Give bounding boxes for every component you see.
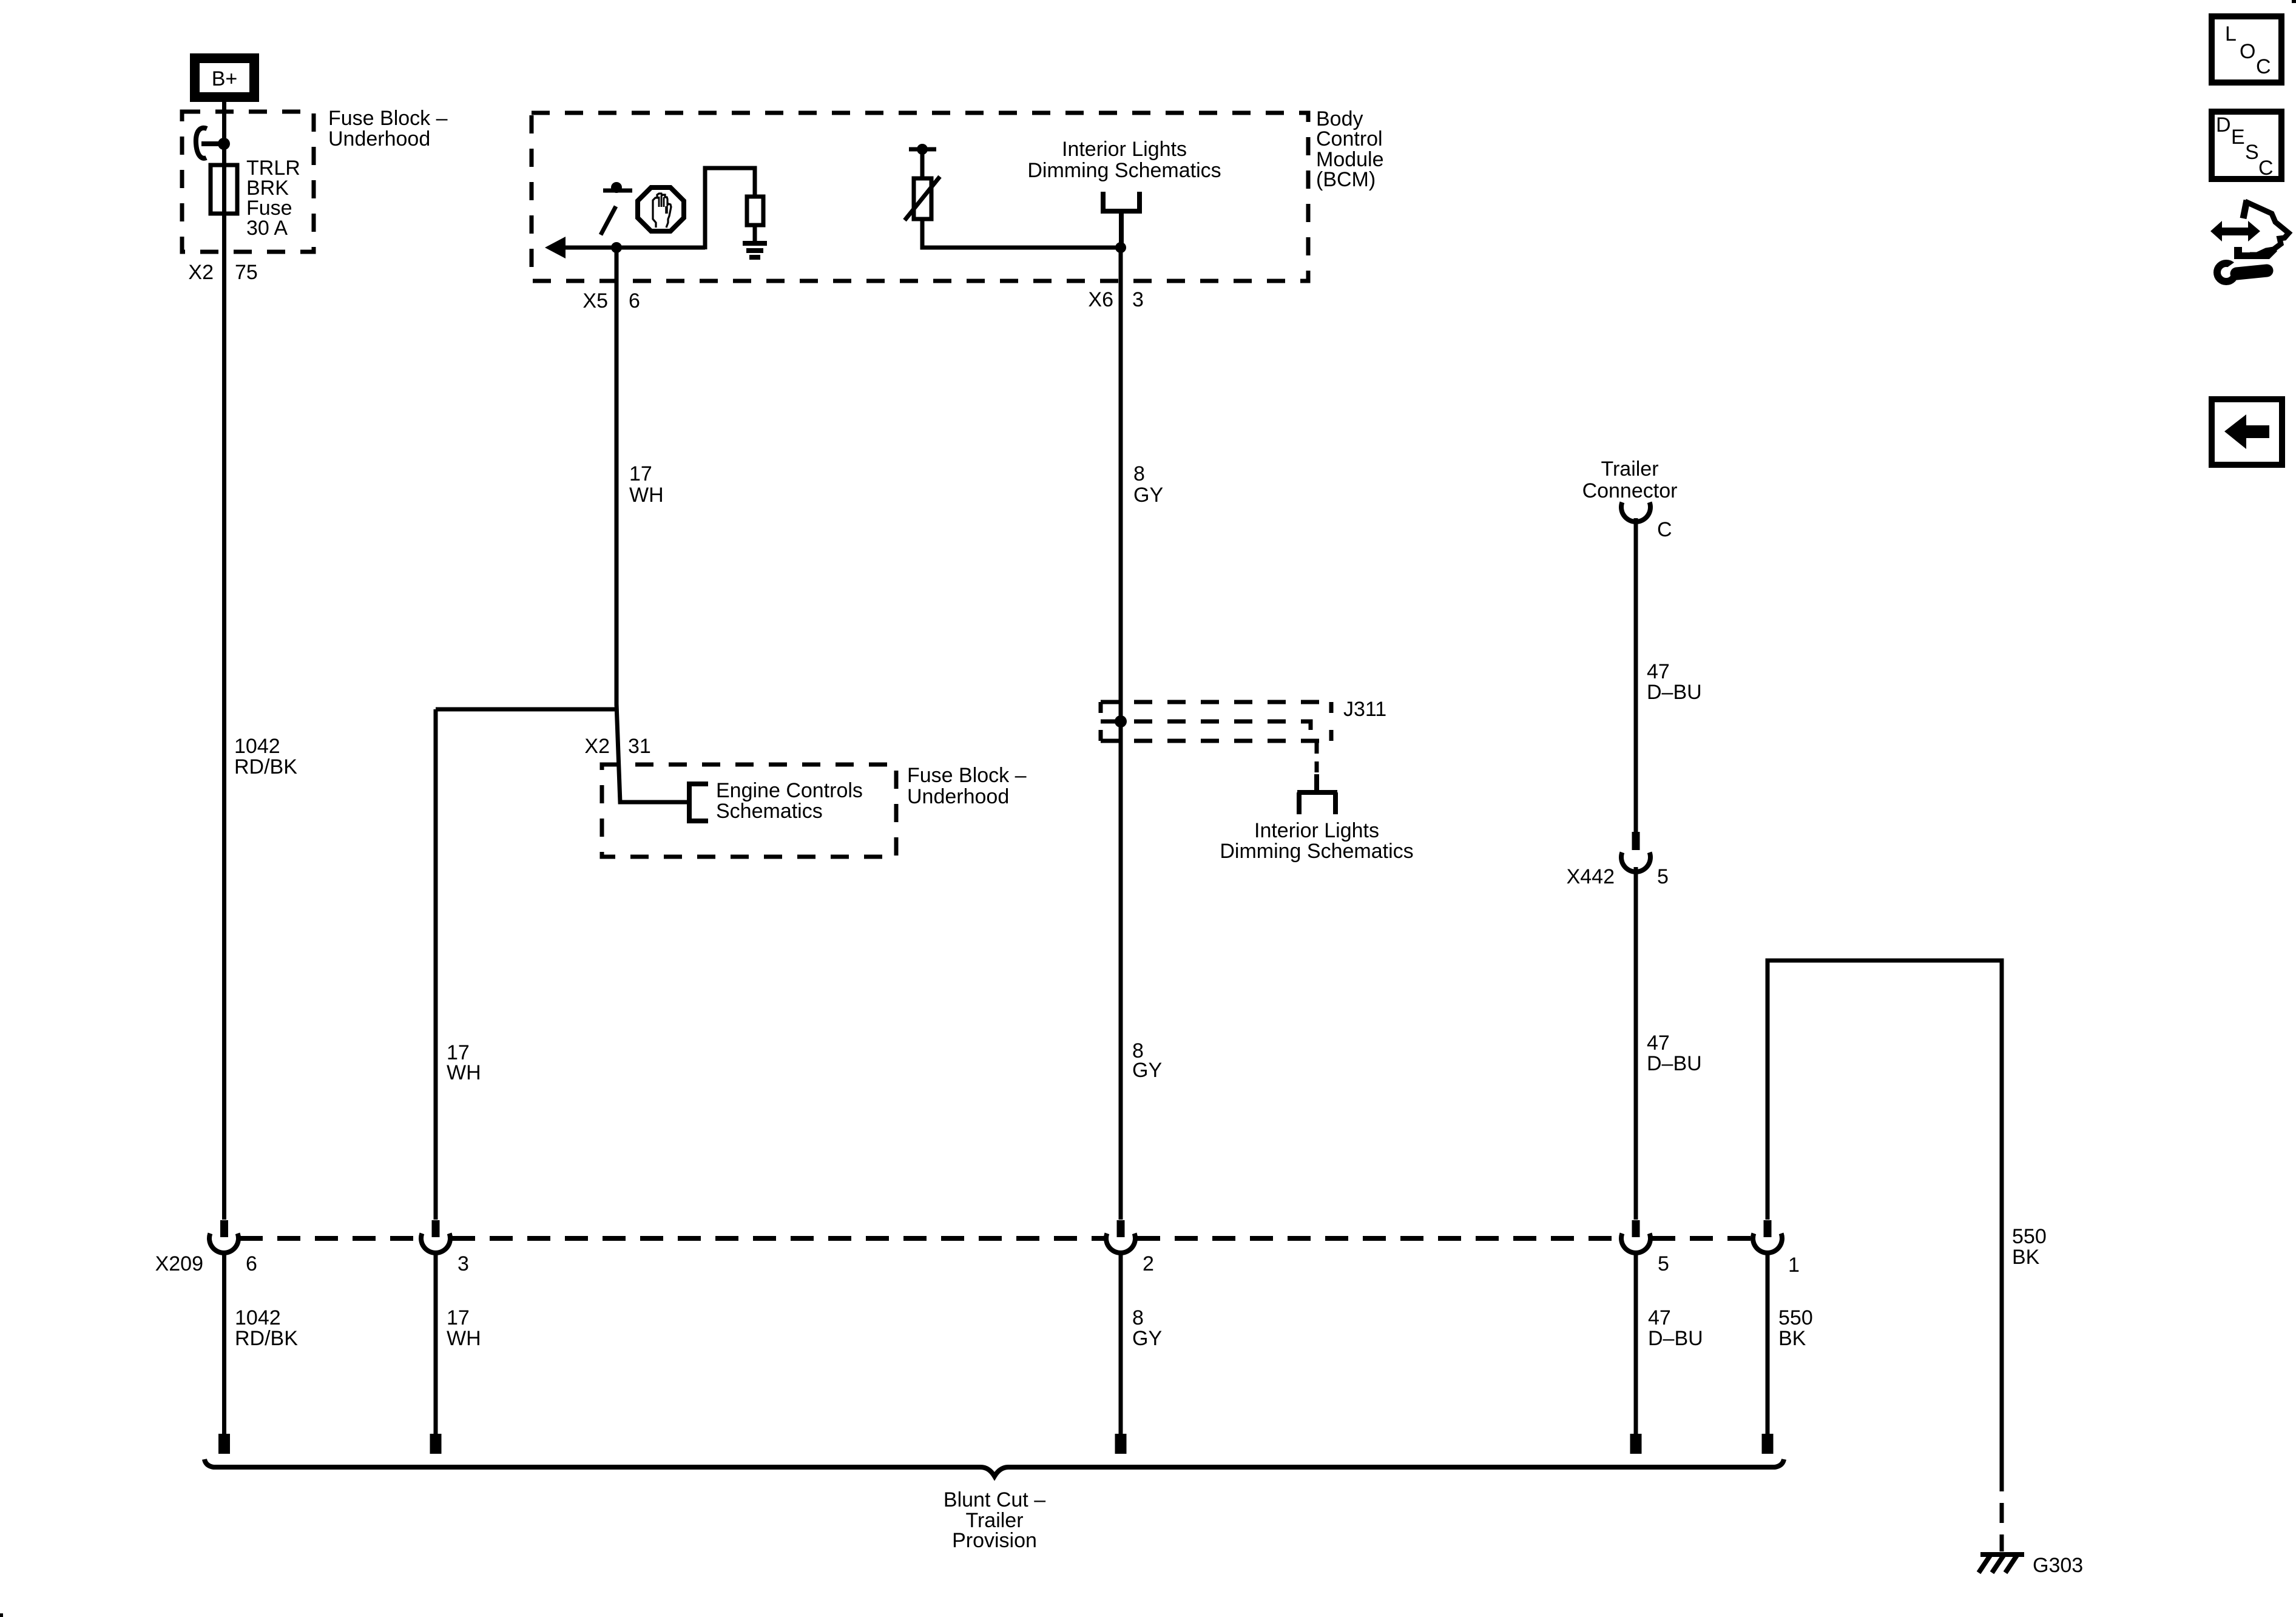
wire 47 D-BU below X209 — [1634, 1252, 1638, 1434]
hand icon — [653, 194, 671, 228]
brace — [204, 1459, 1784, 1476]
connector X209-2 — [1117, 1220, 1125, 1237]
svg-text:3: 3 — [1132, 288, 1144, 311]
wire B+ to fuse block — [222, 102, 226, 1220]
connector-view icon (arrows and wrench) — [2210, 200, 2289, 282]
trailer connector half-circle — [1621, 502, 1650, 522]
fuse TRLR BRK 30 A — [211, 165, 237, 214]
svg-text:Fuse Block –: Fuse Block – — [907, 764, 1027, 787]
wire 17 WH from BCM X5-6 down — [615, 248, 619, 706]
wire bend to left branch — [436, 707, 616, 712]
svg-text:X6: X6 — [1088, 288, 1113, 311]
wire 1042 below X209 — [222, 1252, 226, 1434]
svg-text:8: 8 — [1133, 462, 1145, 485]
svg-text:Interior Lights: Interior Lights — [1062, 138, 1187, 161]
bracket to interior lights dimming — [1297, 774, 1337, 814]
junction dot J311 — [1115, 715, 1127, 727]
svg-text:6: 6 — [629, 289, 640, 312]
interior lights dimming output bracket — [1103, 192, 1140, 244]
svg-text:RD/BK: RD/BK — [234, 755, 297, 778]
svg-text:Fuse Block –: Fuse Block – — [328, 107, 448, 130]
svg-text:WH: WH — [629, 484, 664, 507]
svg-text:Provision: Provision — [952, 1529, 1037, 1552]
left out-arrow on horizontal wire — [545, 237, 566, 258]
svg-text:17: 17 — [447, 1306, 470, 1329]
junction dot X6 output — [1115, 242, 1126, 253]
wire 8 GY below X209 — [1119, 1252, 1123, 1434]
svg-text:Underhood: Underhood — [907, 785, 1009, 808]
wire 550 BK below X209 — [1766, 1252, 1770, 1434]
X442 connector half-circle — [1621, 852, 1650, 872]
svg-text:G303: G303 — [2033, 1554, 2083, 1577]
svg-text:17: 17 — [629, 462, 652, 485]
dashed stub below J311 — [1315, 743, 1319, 774]
svg-text:75: 75 — [235, 261, 258, 284]
svg-text:RD/BK: RD/BK — [235, 1327, 298, 1350]
wire 47 D-BU lower — [1634, 867, 1638, 1220]
wire diagonal into fuse block X2-31 — [616, 704, 689, 802]
X209 dashed harness line — [240, 1236, 1751, 1241]
svg-text:550: 550 — [1778, 1306, 1813, 1329]
svg-text:3: 3 — [458, 1252, 469, 1275]
svg-text:31: 31 — [628, 735, 651, 758]
resistor stem to ground — [753, 225, 757, 241]
svg-text:47: 47 — [1648, 1306, 1671, 1329]
svg-text:Dimming Schematics: Dimming Schematics — [1027, 159, 1221, 182]
svg-text:C: C — [2256, 55, 2271, 78]
svg-text:BK: BK — [1778, 1327, 1806, 1350]
svg-text:X2: X2 — [584, 735, 610, 758]
svg-text:X209: X209 — [155, 1252, 203, 1275]
switch (brake output driver) — [601, 191, 632, 235]
svg-text:WH: WH — [447, 1061, 481, 1084]
terminal blunt cut 550 — [1762, 1434, 1774, 1454]
svg-text:D–BU: D–BU — [1647, 1052, 1702, 1075]
wire up to resistor — [705, 168, 755, 249]
DESC button — [2212, 112, 2281, 180]
svg-text:30 A: 30 A — [246, 217, 288, 240]
dimmer variable resistor — [917, 144, 928, 155]
X442 male pin — [1632, 832, 1640, 850]
svg-text:X5: X5 — [582, 289, 608, 312]
fuse block underhood dashed box — [182, 112, 314, 252]
svg-text:B+: B+ — [212, 67, 238, 90]
svg-text:L: L — [2225, 22, 2237, 46]
connector X209-3 — [432, 1220, 440, 1237]
junction dot on output wire — [611, 242, 622, 253]
wire 8 GY from BCM X6-3 down to X209 — [1119, 248, 1123, 1220]
svg-text:Dimming Schematics: Dimming Schematics — [1220, 840, 1413, 863]
B+ power symbol box — [190, 53, 259, 102]
BCM dashed box — [532, 113, 1308, 281]
wire 550 BK n-shape — [1768, 960, 2002, 1471]
svg-text:X442: X442 — [1567, 865, 1615, 888]
junction dot at fusible link — [218, 138, 230, 150]
svg-text:8: 8 — [1132, 1306, 1144, 1329]
svg-text:550: 550 — [2012, 1225, 2047, 1248]
svg-text:1042: 1042 — [235, 1306, 281, 1329]
svg-text:47: 47 — [1647, 1031, 1670, 1055]
wire 17 WH left branch down to X209 — [434, 709, 438, 1220]
connector X209-6 — [220, 1220, 228, 1237]
svg-text:2: 2 — [1143, 1252, 1154, 1275]
svg-text:47: 47 — [1647, 660, 1670, 683]
svg-text:1: 1 — [1788, 1254, 1800, 1277]
svg-text:1042: 1042 — [234, 735, 280, 758]
svg-text:Engine Controls: Engine Controls — [716, 779, 863, 802]
dashed wire to ground — [2000, 1471, 2004, 1551]
svg-text:Control: Control — [1316, 127, 1383, 150]
engine controls fuse block dashed box — [602, 765, 896, 857]
svg-text:S: S — [2245, 141, 2259, 164]
svg-text:GY: GY — [1133, 484, 1163, 507]
svg-text:Underhood: Underhood — [328, 127, 430, 150]
wire 47 D-BU upper — [1634, 518, 1638, 832]
resistor (pull-down) — [747, 197, 763, 225]
terminal blunt cut 17 — [430, 1434, 442, 1454]
svg-text:Blunt Cut –: Blunt Cut – — [944, 1488, 1045, 1511]
connector X209-1 — [1764, 1220, 1772, 1237]
svg-text:D: D — [2216, 113, 2231, 137]
svg-text:D–BU: D–BU — [1648, 1327, 1703, 1350]
svg-text:6: 6 — [246, 1252, 257, 1275]
back arrow button — [2212, 399, 2282, 465]
ground (internal) — [743, 241, 767, 260]
wire 17 WH below X209 — [434, 1252, 438, 1434]
svg-text:D–BU: D–BU — [1647, 681, 1702, 704]
LOC button — [2212, 16, 2281, 83]
svg-text:5: 5 — [1658, 1252, 1669, 1275]
ground G303 — [1979, 1555, 2024, 1573]
svg-text:Trailer: Trailer — [1601, 457, 1658, 481]
svg-text:O: O — [2240, 40, 2255, 63]
svg-text:(BCM): (BCM) — [1316, 168, 1376, 191]
svg-text:C: C — [1657, 518, 1672, 541]
svg-text:Schematics: Schematics — [716, 800, 823, 823]
svg-text:C: C — [2258, 157, 2274, 180]
engine controls bracket — [689, 784, 708, 821]
svg-text:GY: GY — [1132, 1059, 1162, 1082]
svg-text:Interior Lights: Interior Lights — [1254, 819, 1379, 842]
svg-text:WH: WH — [447, 1327, 481, 1350]
horizontal wire inside BCM — [563, 246, 705, 250]
fusible link symbol — [196, 128, 222, 158]
connector X209-5 — [1632, 1220, 1640, 1237]
svg-text:Connector: Connector — [1582, 479, 1678, 502]
svg-text:J311: J311 — [1343, 698, 1386, 721]
svg-text:E: E — [2231, 126, 2245, 149]
terminal blunt cut 1042 — [218, 1434, 230, 1454]
svg-text:GY: GY — [1132, 1327, 1162, 1350]
svg-text:X2: X2 — [188, 261, 214, 284]
terminal blunt cut 47 — [1630, 1434, 1642, 1454]
stop hand octagon — [638, 187, 684, 231]
svg-text:5: 5 — [1657, 865, 1669, 888]
terminal blunt cut 8 — [1115, 1434, 1127, 1454]
svg-text:BK: BK — [2012, 1246, 2040, 1269]
J311 splice dashed box — [1101, 702, 1331, 741]
page artifact marks — [2292, 0, 2296, 3]
